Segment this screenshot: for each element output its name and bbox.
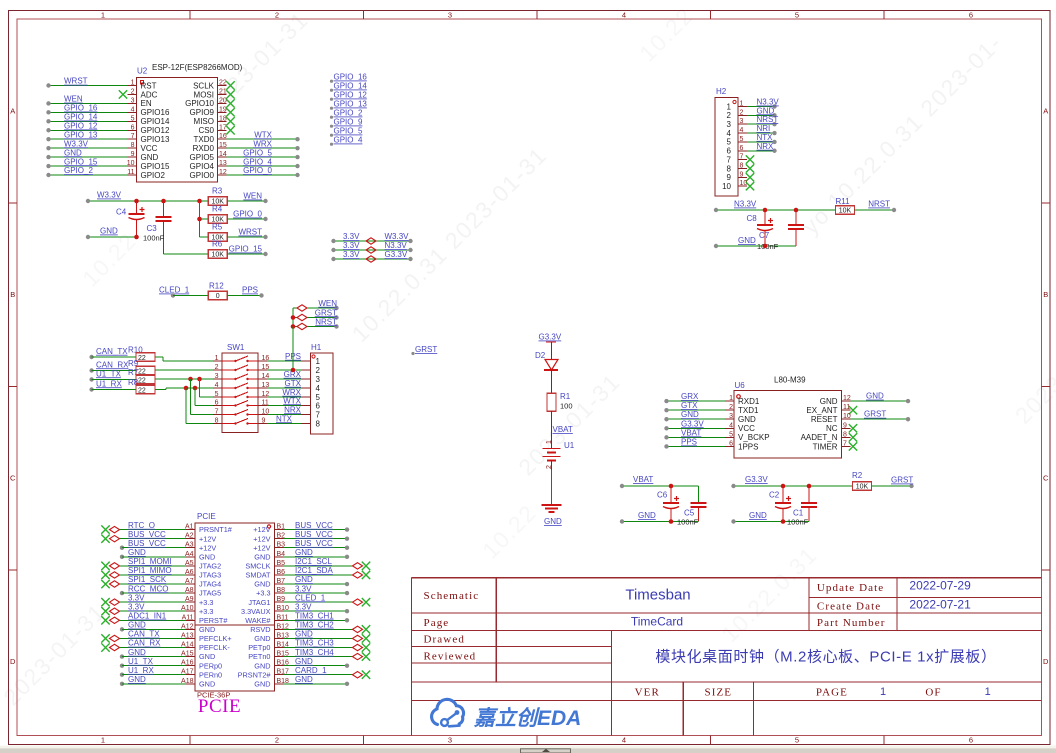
svg-text:13: 13 bbox=[219, 160, 227, 167]
svg-text:GND: GND bbox=[199, 625, 215, 634]
wire to ground bbox=[551, 470, 553, 505]
svg-text:GND: GND bbox=[638, 511, 656, 520]
svg-text:GPIO9: GPIO9 bbox=[190, 108, 215, 117]
junction GRX vertical bbox=[291, 327, 296, 373]
wire R7 to SW1 pin3 bbox=[155, 378, 213, 380]
svg-text:GPIO_13: GPIO_13 bbox=[64, 130, 98, 139]
svg-text:Drawed: Drawed bbox=[424, 634, 465, 646]
svg-text:V_BCKP: V_BCKP bbox=[738, 433, 770, 442]
svg-text:6: 6 bbox=[215, 400, 219, 407]
PCIE pin B8 +3.3 bbox=[256, 584, 349, 597]
svg-text:GND: GND bbox=[128, 648, 146, 657]
wire GND rail bbox=[714, 236, 768, 248]
PCIE pin B17 PRSNT2# bbox=[238, 666, 371, 679]
svg-text:7: 7 bbox=[727, 155, 732, 164]
svg-text:GND: GND bbox=[199, 679, 215, 688]
svg-text:NC: NC bbox=[826, 424, 838, 433]
PCIE pin B7 GND bbox=[254, 575, 349, 588]
svg-text:6: 6 bbox=[740, 145, 744, 152]
wire R9 to SW1 pin2 bbox=[155, 369, 213, 371]
svg-text:GND: GND bbox=[199, 652, 215, 661]
svg-text:R11: R11 bbox=[836, 197, 851, 206]
svg-text:W3.3V: W3.3V bbox=[64, 139, 89, 148]
svg-text:L80-M39: L80-M39 bbox=[774, 376, 806, 385]
connector H1 body bbox=[311, 343, 334, 434]
svg-text:GRST: GRST bbox=[891, 476, 913, 485]
U6 pin 8 AADET_N bbox=[801, 431, 858, 442]
U6 pin 3 GND bbox=[664, 410, 756, 424]
svg-text:3.3V: 3.3V bbox=[343, 232, 360, 241]
PCIE pin A7 JTAG4 bbox=[101, 575, 221, 588]
svg-text:GND: GND bbox=[128, 548, 146, 557]
svg-text:GND: GND bbox=[254, 661, 270, 670]
svg-text:R2: R2 bbox=[852, 471, 863, 480]
U2 pin 18 MISO bbox=[194, 115, 235, 126]
svg-text:A3: A3 bbox=[185, 542, 194, 549]
PCIE pin A4 GND bbox=[120, 548, 215, 561]
U6 pin 10 RESET bbox=[811, 410, 910, 424]
svg-text:19: 19 bbox=[219, 106, 227, 113]
U6 pin 11 EX_ANT bbox=[806, 404, 857, 415]
SW1 pin 1 bbox=[213, 355, 269, 362]
svg-text:6: 6 bbox=[316, 401, 321, 410]
svg-text:U1_TX: U1_TX bbox=[96, 369, 122, 378]
net tie WEN bbox=[293, 299, 339, 311]
svg-text:GPIO_15: GPIO_15 bbox=[229, 245, 263, 254]
svg-text:3.3V: 3.3V bbox=[343, 250, 360, 259]
net flag GPIO_5 bbox=[330, 127, 363, 137]
svg-text:+12V: +12V bbox=[199, 534, 216, 543]
wire to SW1 pin6 bbox=[195, 388, 213, 406]
svg-text:17: 17 bbox=[219, 124, 227, 131]
svg-text:WTX: WTX bbox=[254, 130, 272, 139]
svg-text:NRI: NRI bbox=[757, 124, 771, 133]
U6 pin 4 VCC bbox=[664, 419, 755, 433]
PCIE pin B9 JTAG1 bbox=[248, 593, 370, 606]
svg-text:4: 4 bbox=[622, 11, 626, 20]
svg-text:10K: 10K bbox=[856, 484, 869, 491]
bottom scrollbar strip bbox=[0, 746, 1056, 753]
svg-text:CLED_1: CLED_1 bbox=[159, 286, 190, 295]
svg-text:GRX: GRX bbox=[681, 392, 699, 401]
svg-text:1: 1 bbox=[215, 355, 219, 362]
svg-text:+12V: +12V bbox=[253, 543, 270, 552]
net flag GPIO_14 bbox=[330, 82, 368, 92]
svg-text:ADC1_IN1: ADC1_IN1 bbox=[128, 612, 167, 621]
svg-text:GPIO_5: GPIO_5 bbox=[243, 148, 272, 157]
svg-text:+3.3: +3.3 bbox=[256, 589, 270, 598]
svg-text:PETp0: PETp0 bbox=[248, 643, 270, 652]
U2 pin 20 GPIO10 bbox=[185, 97, 235, 108]
svg-text:Reviewed: Reviewed bbox=[424, 651, 477, 663]
U2 pin 17 CS0 bbox=[198, 124, 234, 135]
resistor R6 10K bbox=[208, 240, 267, 259]
PCIE pin A5 JTAG2 bbox=[101, 557, 221, 570]
svg-text:PERn0: PERn0 bbox=[199, 670, 222, 679]
svg-text:SMDAT: SMDAT bbox=[246, 571, 272, 580]
svg-text:3.3V: 3.3V bbox=[128, 593, 145, 602]
svg-text:VCC: VCC bbox=[141, 144, 158, 153]
svg-text:GPIO_0: GPIO_0 bbox=[233, 210, 262, 219]
svg-text:4: 4 bbox=[729, 422, 733, 429]
svg-text:BUS_VCC: BUS_VCC bbox=[128, 539, 166, 548]
svg-text:H2: H2 bbox=[716, 87, 727, 96]
svg-text:2022-07-29: 2022-07-29 bbox=[909, 579, 971, 593]
svg-text:WAKE#: WAKE# bbox=[245, 616, 271, 625]
svg-text:+12V: +12V bbox=[253, 534, 270, 543]
svg-text:GPIO5: GPIO5 bbox=[190, 153, 215, 162]
svg-text:嘉立创EDA: 嘉立创EDA bbox=[473, 706, 581, 730]
svg-text:10K: 10K bbox=[839, 208, 852, 215]
svg-text:GPIO_15: GPIO_15 bbox=[64, 157, 98, 166]
U2 pin 2 ADC bbox=[119, 88, 158, 99]
resistor R7 22 bbox=[89, 368, 155, 385]
svg-text:11: 11 bbox=[127, 169, 134, 176]
svg-text:7: 7 bbox=[316, 410, 321, 419]
svg-text:GPIO_16: GPIO_16 bbox=[64, 104, 98, 113]
svg-text:GPIO_5: GPIO_5 bbox=[334, 127, 363, 136]
H2 pin 2 bbox=[727, 106, 777, 120]
svg-text:1: 1 bbox=[101, 11, 105, 20]
svg-text:SPI1_MOMI: SPI1_MOMI bbox=[128, 557, 172, 566]
svg-text:5: 5 bbox=[729, 431, 733, 438]
svg-text:U1_RX: U1_RX bbox=[96, 379, 122, 388]
svg-text:16: 16 bbox=[219, 133, 227, 140]
wire N3.3V rail bbox=[714, 200, 836, 213]
svg-text:22: 22 bbox=[138, 378, 146, 385]
svg-text:A1: A1 bbox=[185, 524, 194, 531]
svg-text:A: A bbox=[1043, 107, 1048, 116]
svg-text:1PPS: 1PPS bbox=[738, 442, 758, 451]
wire junction column bbox=[197, 201, 208, 237]
U2 pin 13 GPIO4 bbox=[190, 157, 300, 171]
svg-text:100nF: 100nF bbox=[787, 518, 809, 527]
U6 pin 1 RXD1 bbox=[664, 392, 760, 406]
PCIE pin A17 PERn0 bbox=[120, 666, 222, 679]
svg-text:4: 4 bbox=[131, 106, 135, 113]
svg-text:11: 11 bbox=[843, 404, 850, 411]
svg-text:GND: GND bbox=[295, 630, 313, 639]
H2 pin 5 bbox=[727, 133, 777, 147]
svg-text:ESP-12F(ESP8266MOD): ESP-12F(ESP8266MOD) bbox=[152, 63, 243, 72]
capacitor C6 bbox=[657, 486, 679, 522]
svg-text:G3.3V: G3.3V bbox=[539, 333, 562, 342]
wire SW1 pin13 to H1 pin4 bbox=[267, 379, 302, 388]
resistor R4 10K bbox=[208, 205, 267, 224]
PCIE pin A1 PRSNT1# bbox=[101, 521, 232, 534]
svg-text:PPS: PPS bbox=[242, 286, 258, 295]
PCIE pin A12 GND bbox=[120, 621, 215, 634]
capacitor C5 100nF bbox=[671, 486, 707, 527]
U2 pin 16 TXD0 bbox=[194, 130, 300, 144]
svg-text:2: 2 bbox=[740, 109, 744, 116]
SW1 pin 3 bbox=[213, 373, 269, 380]
svg-text:U6: U6 bbox=[735, 381, 746, 390]
svg-text:C: C bbox=[10, 474, 16, 483]
svg-text:CAN_TX: CAN_TX bbox=[96, 347, 128, 356]
svg-text:GPIO13: GPIO13 bbox=[141, 135, 170, 144]
svg-text:C8: C8 bbox=[747, 214, 758, 223]
svg-text:RST: RST bbox=[141, 81, 157, 90]
svg-text:5: 5 bbox=[795, 736, 799, 745]
capacitor C1 100nF bbox=[783, 486, 817, 527]
svg-text:GND: GND bbox=[820, 397, 838, 406]
svg-text:RESET: RESET bbox=[811, 415, 838, 424]
net flag GPIO_2 bbox=[330, 109, 363, 119]
svg-text:GPIO0: GPIO0 bbox=[190, 171, 215, 180]
U2 pin 14 GPIO5 bbox=[190, 148, 300, 162]
svg-text:R1: R1 bbox=[560, 392, 571, 401]
PCIE pin A8 JTAG5 bbox=[120, 584, 221, 597]
svg-text:WEN: WEN bbox=[243, 192, 262, 201]
svg-text:NRST: NRST bbox=[315, 317, 337, 326]
svg-text:GND: GND bbox=[681, 410, 699, 419]
svg-text:B: B bbox=[10, 290, 15, 299]
svg-text:GRST: GRST bbox=[315, 308, 337, 317]
connector PCIE body bbox=[195, 512, 275, 700]
svg-text:D: D bbox=[1043, 657, 1049, 666]
svg-text:100nF: 100nF bbox=[143, 234, 165, 243]
svg-text:GND: GND bbox=[295, 675, 313, 684]
svg-text:CARD_1: CARD_1 bbox=[295, 666, 327, 675]
wire SW1 pin16 to H1 pin1 bbox=[267, 352, 302, 361]
svg-text:U1_TX: U1_TX bbox=[128, 657, 154, 666]
svg-text:2: 2 bbox=[275, 11, 279, 20]
svg-text:VER: VER bbox=[635, 687, 660, 699]
svg-text:+3.3: +3.3 bbox=[199, 598, 213, 607]
svg-text:GND: GND bbox=[64, 148, 82, 157]
svg-text:JTAG2: JTAG2 bbox=[199, 561, 221, 570]
wire net-tie stack vertical bbox=[292, 308, 294, 370]
svg-text:6: 6 bbox=[969, 11, 973, 20]
svg-text:22: 22 bbox=[138, 369, 146, 376]
svg-text:R4: R4 bbox=[212, 205, 223, 214]
svg-text:12: 12 bbox=[219, 169, 227, 176]
net flag GPIO_12 bbox=[330, 91, 368, 101]
resistor R9 22 bbox=[89, 359, 155, 376]
svg-text:9: 9 bbox=[262, 418, 266, 425]
svg-text:TIM3_CH4: TIM3_CH4 bbox=[295, 648, 334, 657]
U2 pin 3 EN bbox=[46, 95, 152, 109]
svg-text:7: 7 bbox=[740, 154, 744, 161]
svg-text:GPIO_13: GPIO_13 bbox=[334, 100, 368, 109]
svg-text:5: 5 bbox=[727, 138, 732, 147]
svg-text:1: 1 bbox=[101, 736, 105, 745]
H2 pin 3 bbox=[727, 115, 779, 129]
wire SW1 pin15 to H1 pin2 bbox=[267, 369, 302, 371]
U2 pin 8 VCC bbox=[46, 139, 157, 153]
svg-text:CS0: CS0 bbox=[198, 126, 214, 135]
svg-text:8: 8 bbox=[727, 164, 732, 173]
PCIE pin A11 PERST# bbox=[101, 612, 228, 625]
svg-text:Timesban: Timesban bbox=[625, 587, 690, 604]
svg-text:+12V: +12V bbox=[199, 543, 216, 552]
svg-text:4: 4 bbox=[740, 127, 744, 134]
svg-text:JTAG3: JTAG3 bbox=[199, 571, 221, 580]
svg-text:22: 22 bbox=[219, 80, 227, 87]
svg-text:4: 4 bbox=[215, 382, 219, 389]
svg-text:PERST#: PERST# bbox=[199, 616, 228, 625]
svg-text:GND: GND bbox=[128, 621, 146, 630]
svg-text:U1: U1 bbox=[564, 441, 575, 450]
svg-text:GPIO_4: GPIO_4 bbox=[334, 136, 363, 145]
svg-text:+3.3: +3.3 bbox=[199, 607, 213, 616]
PCIE pin A9 +3.3 bbox=[101, 593, 213, 606]
wire to SW1 pin8 bbox=[186, 388, 213, 424]
svg-text:ADC: ADC bbox=[141, 90, 158, 99]
svg-text:10: 10 bbox=[843, 413, 851, 420]
svg-text:VBAT: VBAT bbox=[553, 425, 573, 434]
svg-text:JTAG1: JTAG1 bbox=[248, 598, 270, 607]
svg-text:C6: C6 bbox=[657, 491, 668, 500]
svg-text:GPIO12: GPIO12 bbox=[141, 126, 170, 135]
svg-text:4: 4 bbox=[727, 129, 732, 138]
svg-text:6: 6 bbox=[131, 124, 135, 131]
svg-text:EX_ANT: EX_ANT bbox=[806, 406, 837, 415]
title block table bbox=[412, 578, 1042, 736]
svg-text:C3: C3 bbox=[147, 224, 158, 233]
svg-text:TIM3_CH3: TIM3_CH3 bbox=[295, 639, 334, 648]
svg-text:GND: GND bbox=[254, 552, 270, 561]
capacitor C4 bbox=[116, 201, 145, 237]
svg-text:GND: GND bbox=[100, 227, 118, 236]
svg-text:G3.3V: G3.3V bbox=[385, 250, 408, 259]
junction bbox=[291, 315, 296, 320]
logo JLCEDA bbox=[432, 699, 582, 730]
svg-text:2: 2 bbox=[546, 465, 553, 469]
wire G3.3V rail bbox=[731, 475, 852, 488]
svg-text:CAN_TX: CAN_TX bbox=[128, 630, 160, 639]
svg-text:PCIE: PCIE bbox=[197, 512, 216, 521]
svg-text:6: 6 bbox=[727, 147, 732, 156]
svg-text:U1_RX: U1_RX bbox=[128, 666, 154, 675]
svg-text:GND: GND bbox=[738, 236, 756, 245]
svg-text:GND: GND bbox=[757, 106, 775, 115]
svg-text:A6: A6 bbox=[185, 569, 194, 576]
svg-text:GND: GND bbox=[295, 575, 313, 584]
svg-text:4: 4 bbox=[316, 384, 321, 393]
SW1 pin 7 bbox=[213, 409, 269, 416]
wire R10 to SW1 pin1 bbox=[155, 357, 213, 361]
wire SW1 pin10 to H1 pin7 bbox=[267, 405, 302, 414]
H1 pin 8 bbox=[302, 419, 321, 428]
svg-text:VBAT: VBAT bbox=[633, 475, 653, 484]
PCIE pin A3 +12V bbox=[120, 539, 217, 552]
PCIE pin B13 GND bbox=[254, 630, 370, 643]
svg-text:C2: C2 bbox=[769, 491, 780, 500]
svg-text:H1: H1 bbox=[311, 343, 322, 352]
U2 pin 1 RST bbox=[46, 77, 156, 91]
svg-text:3.3VAUX: 3.3VAUX bbox=[241, 607, 271, 616]
svg-text:TIMER: TIMER bbox=[813, 442, 838, 451]
svg-text:GPIO_2: GPIO_2 bbox=[334, 109, 363, 118]
net tie NRST bbox=[293, 317, 339, 329]
net flag GPIO_4 bbox=[330, 136, 363, 146]
svg-text:1: 1 bbox=[985, 686, 991, 698]
U2 pin 11 GPIO2 bbox=[46, 166, 165, 180]
svg-text:GPIO_14: GPIO_14 bbox=[64, 113, 98, 122]
ground bbox=[542, 505, 563, 526]
svg-text:GPIO_16: GPIO_16 bbox=[334, 73, 368, 82]
svg-text:3: 3 bbox=[448, 736, 452, 745]
svg-text:3: 3 bbox=[316, 375, 321, 384]
svg-text:A7: A7 bbox=[185, 578, 194, 585]
op-amp U2 ESP-12F(ESP8266MOD) body bbox=[137, 63, 243, 182]
svg-text:GPIO_0: GPIO_0 bbox=[243, 166, 272, 175]
svg-text:1: 1 bbox=[740, 101, 744, 108]
svg-text:GPIO2: GPIO2 bbox=[141, 171, 166, 180]
svg-text:9: 9 bbox=[843, 422, 847, 429]
svg-text:18: 18 bbox=[219, 115, 227, 122]
H2 pin 10 bbox=[722, 180, 754, 191]
svg-text:GRST: GRST bbox=[415, 345, 437, 354]
svg-text:10: 10 bbox=[722, 182, 731, 191]
svg-text:3.3V: 3.3V bbox=[343, 241, 360, 250]
svg-text:A: A bbox=[10, 107, 15, 116]
svg-text:R12: R12 bbox=[209, 282, 224, 291]
U2 pin 19 GPIO9 bbox=[190, 106, 235, 117]
wire SW1 pin11 to H1 pin6 bbox=[267, 396, 302, 405]
junction bbox=[134, 199, 139, 204]
U2 pin 22 SCLK bbox=[193, 80, 235, 91]
title block texts bbox=[424, 579, 997, 699]
svg-text:2: 2 bbox=[316, 366, 321, 375]
net flag GPIO_9 bbox=[330, 118, 363, 128]
svg-text:GND: GND bbox=[738, 415, 756, 424]
svg-text:SPI1_MIMO: SPI1_MIMO bbox=[128, 566, 172, 575]
svg-text:8: 8 bbox=[131, 142, 135, 149]
PCIE pin B1 +12V bbox=[253, 521, 349, 534]
svg-text:3: 3 bbox=[727, 120, 732, 129]
SW1 pin 4 bbox=[213, 382, 269, 389]
svg-text:WEN: WEN bbox=[64, 95, 83, 104]
svg-text:GPIO4: GPIO4 bbox=[190, 162, 215, 171]
capacitor C8 bbox=[747, 210, 774, 246]
svg-text:3.3V: 3.3V bbox=[295, 584, 312, 593]
svg-text:PERp0: PERp0 bbox=[199, 661, 222, 670]
junction bbox=[188, 377, 193, 382]
PCIE pin A6 JTAG3 bbox=[101, 566, 221, 579]
U6 pin 2 TXD1 bbox=[664, 401, 759, 415]
svg-text:GPIO_2: GPIO_2 bbox=[64, 166, 93, 175]
svg-text:PPS: PPS bbox=[681, 437, 697, 446]
svg-text:GRST: GRST bbox=[864, 410, 886, 419]
svg-text:N3.3V: N3.3V bbox=[757, 98, 780, 107]
resistor R8 22 bbox=[89, 378, 155, 395]
U2 pin 15 RXD0 bbox=[193, 139, 300, 153]
svg-text:1: 1 bbox=[727, 102, 732, 111]
svg-text:G3.3V: G3.3V bbox=[745, 475, 768, 484]
svg-text:N3.3V: N3.3V bbox=[385, 241, 408, 250]
svg-text:BUS_VCC: BUS_VCC bbox=[295, 521, 333, 530]
svg-text:PRSNT1#: PRSNT1# bbox=[199, 525, 233, 534]
svg-text:7: 7 bbox=[131, 133, 135, 140]
U2 pin 12 GPIO0 bbox=[190, 166, 300, 180]
PCIE pin B5 SMCLK bbox=[245, 557, 370, 570]
SW1 pin 6 bbox=[213, 400, 269, 407]
svg-text:10: 10 bbox=[740, 180, 748, 187]
svg-text:C1: C1 bbox=[793, 509, 804, 518]
svg-text:NRX: NRX bbox=[757, 142, 775, 151]
svg-text:WRX: WRX bbox=[253, 139, 272, 148]
svg-text:8: 8 bbox=[843, 431, 847, 438]
capacitor C3 100nF bbox=[143, 201, 172, 254]
svg-text:GPIO_9: GPIO_9 bbox=[334, 118, 363, 127]
svg-text:9: 9 bbox=[727, 173, 732, 182]
net tie 3.3V to W3.3V bbox=[331, 232, 412, 244]
svg-text:A4: A4 bbox=[185, 551, 194, 558]
svg-text:C7: C7 bbox=[759, 231, 770, 240]
